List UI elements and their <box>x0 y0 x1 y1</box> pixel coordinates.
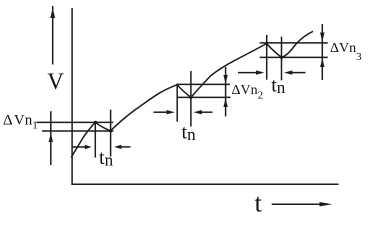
svg-text:V: V <box>47 69 64 94</box>
box3 junction dot <box>280 56 283 59</box>
box1 junction dot <box>109 129 112 132</box>
box2 junction dot <box>189 96 192 99</box>
box3 lower line <box>260 56 328 58</box>
peak1 junction dot <box>94 121 97 124</box>
x-axis <box>71 183 338 185</box>
dVn1 up arrow head <box>49 133 53 142</box>
box2 tn left-pointing arrow shaft <box>202 111 213 113</box>
box3 upper line <box>260 42 328 44</box>
y-axis <box>71 8 73 185</box>
box3 tn right-pointing arrow head <box>256 70 264 74</box>
svg-text:ΔVn3: ΔVn3 <box>330 41 362 63</box>
svg-text:tn: tn <box>99 147 114 170</box>
dVn2 indicator shaft <box>225 67 227 117</box>
t axis arrow head <box>320 202 333 206</box>
svg-text:tn: tn <box>182 122 197 145</box>
box3 tn right-pointing arrow shaft <box>238 72 256 74</box>
dVn3 up arrow head <box>320 59 324 68</box>
box1 upper line <box>37 121 114 123</box>
box2 upper line <box>177 83 230 85</box>
box2 tn left-pointing arrow head <box>194 110 202 114</box>
svg-text:t: t <box>255 189 263 218</box>
box1 vertical line 1 <box>94 122 96 158</box>
box3 vertical line 1 <box>266 35 268 80</box>
box1 tn right-pointing arrow shaft <box>72 146 86 148</box>
V axis arrow shaft <box>52 6 54 65</box>
box2 tn right-pointing arrow shaft <box>154 111 168 113</box>
svg-text:ΔVn2: ΔVn2 <box>232 83 264 102</box>
box1 lower line <box>42 130 114 132</box>
box2 vertical line 1 <box>176 84 178 122</box>
box1 tn right-pointing arrow head <box>85 145 92 149</box>
dVn2 down arrow head <box>223 75 227 84</box>
box1 tn left-pointing arrow head <box>114 145 121 149</box>
box3 tn left-pointing arrow shaft <box>292 72 306 74</box>
box3 tn left-pointing arrow head <box>284 70 292 74</box>
box1 tn left-pointing arrow shaft <box>121 146 131 148</box>
box2 lower line <box>177 96 231 98</box>
box2 tn right-pointing arrow head <box>167 110 175 114</box>
box2 vertical line 2 <box>190 71 192 127</box>
V axis arrow head <box>50 8 55 18</box>
dVn2 up arrow head <box>223 99 227 108</box>
signal curve <box>71 31 313 157</box>
svg-text:Δ Vn1: Δ Vn1 <box>3 113 38 132</box>
dVn1 indicator shaft <box>50 111 52 165</box>
svg-text:tn: tn <box>271 74 286 97</box>
box3 vertical line 2 <box>281 37 283 81</box>
t axis arrow shaft <box>272 203 321 205</box>
box1 vertical line 2 <box>110 110 112 157</box>
dVn3 down arrow head <box>320 33 324 43</box>
dVn3 indicator shaft <box>321 24 323 80</box>
